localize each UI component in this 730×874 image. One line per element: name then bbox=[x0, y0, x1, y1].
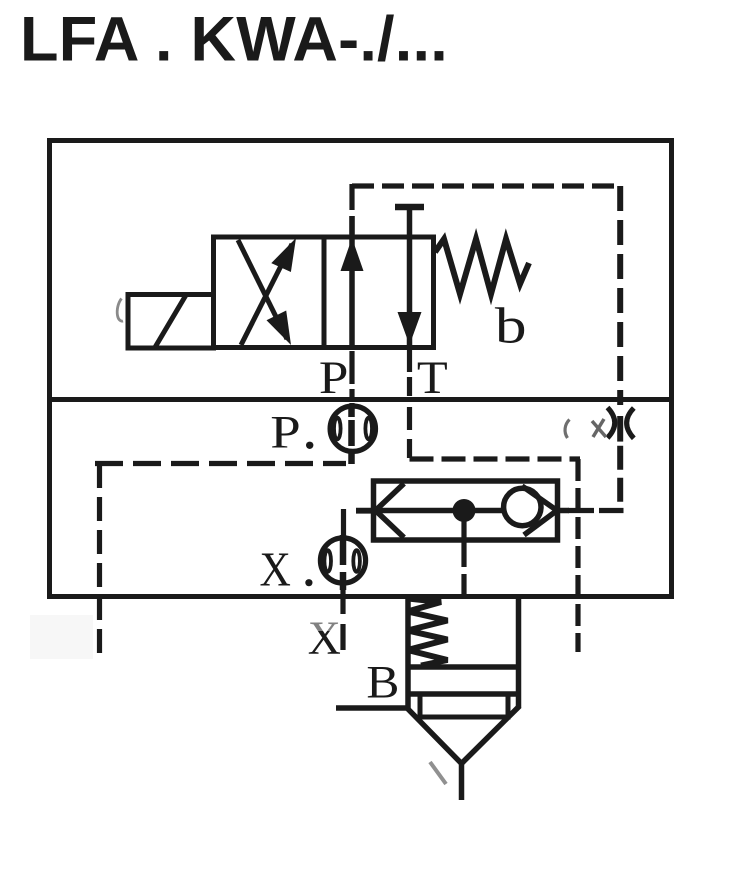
orifice X. symbol bbox=[320, 538, 365, 583]
valve left square (crossed arrows position) bbox=[214, 237, 325, 348]
arrowhead down-right bbox=[267, 311, 292, 346]
P arrowhead bbox=[341, 238, 364, 271]
line: shuttle junction down to cartridge bbox=[461, 521, 466, 597]
valve right square (P-T position) bbox=[324, 237, 434, 348]
svg-text:T: T bbox=[417, 352, 448, 404]
cartridge band 2 bbox=[408, 691, 519, 697]
pilot line dashed: X orifice central bar bbox=[340, 535, 347, 590]
pilot line dashed: top horizontal bbox=[352, 183, 621, 188]
shuttle right port stub bbox=[558, 508, 570, 514]
orifice P. symbol bbox=[330, 406, 375, 451]
svg-text:b: b bbox=[495, 298, 527, 354]
T arrowhead bbox=[398, 312, 422, 345]
crossed arrow line 2 bbox=[238, 240, 287, 339]
pilot line dashed: P valve stub above bbox=[349, 184, 354, 234]
pilot line dashed: T below valve bbox=[407, 346, 412, 372]
P up-arrow line bbox=[349, 216, 355, 346]
cartridge right wall bbox=[516, 596, 522, 708]
pilot line dashed: to shuttle right port bbox=[568, 508, 624, 513]
shuttle ball bbox=[504, 488, 541, 525]
shuttle valve box bbox=[356, 481, 569, 540]
shuttle right seat bbox=[522, 486, 557, 535]
svg-text:P: P bbox=[319, 351, 349, 403]
svg-text:X: X bbox=[260, 542, 291, 596]
spring b (pilot valve return spring) bbox=[435, 239, 529, 294]
poppet left diagonal bbox=[407, 708, 462, 764]
cartridge band 1 bbox=[408, 664, 519, 670]
crossed arrow line 1 bbox=[241, 244, 292, 345]
artifact grey hook bbox=[117, 299, 123, 322]
T down-arrow line bbox=[407, 207, 413, 346]
cartridge seat rect bbox=[420, 694, 508, 717]
svg-text:LFA . KWA-./...: LFA . KWA-./... bbox=[20, 5, 448, 75]
pilot line dashed: left vertical down bbox=[97, 464, 102, 653]
svg-text:B: B bbox=[366, 657, 399, 708]
orifice symbol on right pilot line ")(" bbox=[608, 408, 634, 439]
pilot line dashed: through P orifice bbox=[348, 406, 355, 464]
artifact grey l bbox=[565, 420, 569, 439]
pilot line dashed: right vertical lower bbox=[617, 416, 623, 442]
artifact white fade on X label bbox=[299, 617, 339, 631]
pilot line dashed: X port below bbox=[340, 586, 345, 650]
enclosure big box bbox=[50, 141, 672, 597]
poppet right diagonal bbox=[462, 706, 520, 764]
pilot line dashed: P below valve bbox=[349, 351, 354, 404]
shuttle horizontal line bbox=[356, 508, 504, 514]
cartridge poppet valve bbox=[336, 596, 520, 800]
shuttle left seat bbox=[376, 484, 405, 538]
pilot line: X orifice to shuttle elbow bbox=[341, 509, 346, 538]
shuttle junction dot bbox=[453, 499, 476, 522]
svg-text:P: P bbox=[270, 407, 300, 459]
cartridge spring bbox=[408, 599, 448, 666]
pilot line dashed: right vertical upper bbox=[617, 186, 623, 405]
port B line bbox=[336, 705, 406, 711]
poppet tail line bbox=[459, 762, 465, 800]
cartridge left wall bbox=[405, 596, 411, 709]
arrowhead up-right bbox=[271, 238, 296, 272]
divider line between upper and lower section bbox=[47, 397, 674, 402]
artifact grey patch bbox=[30, 615, 93, 659]
artifact grey x bbox=[592, 419, 606, 437]
pilot line dashed: left horizontal bbox=[95, 461, 346, 466]
solenoid actuator box bbox=[128, 295, 214, 349]
pilot line dashed: T horizontal to right bbox=[410, 456, 581, 461]
solenoid diagonal bbox=[154, 295, 186, 349]
artifact grey diagonal bbox=[430, 762, 446, 784]
pilot line dashed: right-bottom vertical bbox=[575, 459, 580, 652]
T tank cap bar bbox=[395, 204, 424, 211]
